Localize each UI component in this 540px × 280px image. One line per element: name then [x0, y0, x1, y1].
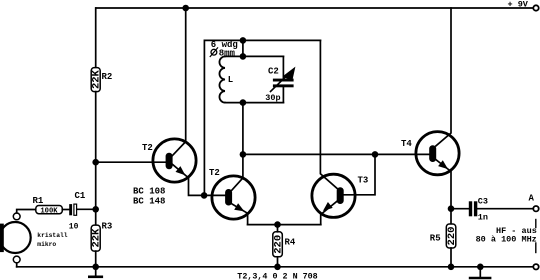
resistor R4: [273, 232, 283, 257]
svg-text:L: L: [228, 75, 233, 85]
capacitor C2 trimmer arrow: [271, 76, 288, 92]
wire R4 top stub: [277, 225, 279, 232]
svg-text:R1: R1: [33, 196, 44, 206]
node junction tank bottom: [240, 99, 247, 106]
svg-text:220: 220: [272, 235, 284, 254]
transistor T2 first: [153, 8, 204, 195]
wire C1 to junction: [77, 208, 96, 210]
svg-text:100K: 100K: [40, 207, 58, 215]
label coil diameter 8mm: [210, 47, 218, 57]
wire R5 bottom stub: [450, 248, 452, 267]
wire R5 top stub: [450, 209, 452, 224]
svg-text:T3: T3: [358, 175, 369, 185]
svg-text:T2,3,4 0 2 N 708: T2,3,4 0 2 N 708: [237, 272, 317, 280]
wire dashed output port upper: [535, 220, 537, 228]
wire tank right edge lower: [282, 87, 284, 102]
svg-text:T4: T4: [401, 139, 412, 149]
wire top supply rail: [96, 7, 533, 9]
svg-text:C1: C1: [75, 191, 86, 201]
svg-text:R4: R4: [285, 238, 296, 248]
svg-text:+ 9V: + 9V: [508, 0, 529, 9]
svg-text:1n: 1n: [478, 212, 488, 222]
svg-text:10: 10: [69, 222, 79, 231]
wire feedback box left edge: [204, 40, 320, 195]
resistor R2: [91, 68, 100, 92]
microphone body: [0, 222, 31, 253]
wire R3 bottom to ground rail: [95, 251, 97, 267]
node junction tank tap on box top: [240, 37, 247, 44]
resistor R3: [91, 225, 100, 251]
wire R4 bottom stub: [277, 257, 279, 267]
node ground rail terminal right: [533, 264, 538, 269]
resistor R5: [446, 224, 456, 248]
node mic bottom terminal: [13, 256, 20, 263]
node junction T3 base tap: [372, 151, 379, 158]
ground symbol left: [95, 267, 97, 277]
svg-text:30p: 30p: [265, 93, 280, 103]
svg-text:C2: C2: [268, 66, 279, 76]
wire left drop from rail to R2: [95, 8, 97, 68]
wire dashed output port lower: [535, 243, 537, 253]
microphone element bar: [0, 224, 4, 253]
capacitor C3 plate right: [474, 201, 477, 216]
node junction T2b base: [201, 192, 208, 199]
wire tank bottom edge: [225, 102, 283, 104]
node junction R5/rail: [448, 264, 455, 271]
svg-text:80 à 100 MHz: 80 à 100 MHz: [476, 235, 537, 245]
svg-text:BC 108: BC 108: [133, 187, 165, 197]
svg-text:mikro: mikro: [37, 241, 56, 248]
svg-text:22K: 22K: [91, 228, 103, 248]
svg-text:220: 220: [446, 227, 458, 246]
wire R1 to C1: [62, 209, 69, 211]
wire tank top edge: [225, 55, 283, 57]
inductor L coil: [219, 56, 225, 102]
node junction R4 top: [274, 221, 281, 228]
svg-text:C3: C3: [478, 196, 488, 206]
svg-text:T2: T2: [142, 143, 153, 153]
wire emitter coupling T2b to T3: [248, 224, 321, 226]
svg-text:A: A: [529, 193, 535, 203]
node +9V terminal: [533, 5, 538, 10]
svg-text:R5: R5: [430, 233, 441, 243]
wire R2 bottom to R3 top: [95, 92, 97, 226]
transistor T3: [312, 40, 375, 224]
svg-text:R2: R2: [102, 72, 113, 82]
transistor T2 second: [207, 158, 255, 225]
node junction ground right: [477, 264, 484, 271]
node junction rail/T2a collector: [182, 5, 189, 12]
wire tank feed lower: [242, 103, 244, 155]
wire mic top to R1: [17, 210, 36, 213]
wire junction to C3: [451, 208, 469, 210]
node junction R3/rail: [92, 264, 99, 271]
svg-text:8mm: 8mm: [219, 49, 236, 59]
wire tank right edge upper: [282, 56, 284, 78]
wire C3 to terminal A: [477, 208, 533, 210]
ground symbol right: [479, 267, 481, 278]
capacitor C1 plate left: [69, 204, 72, 215]
svg-text:T2: T2: [209, 168, 220, 178]
wire collector bus to T4 base: [243, 153, 429, 155]
svg-text:R3: R3: [102, 222, 113, 232]
wire base of T2a from divider: [96, 161, 166, 163]
wire mic bottom to ground rail: [16, 263, 18, 267]
wire bottom ground rail: [17, 266, 533, 268]
capacitor C2 plate upper: [273, 79, 294, 82]
capacitor C3 plate left: [469, 201, 472, 216]
node junction C1/divider: [92, 206, 99, 213]
capacitor C2 plate lower: [273, 84, 294, 87]
node junction R4/rail: [274, 264, 281, 271]
node junction emitter/C3/R5: [448, 205, 455, 212]
node mic top terminal: [13, 213, 20, 220]
svg-text:kristall: kristall: [37, 232, 67, 239]
node terminal A: [533, 206, 538, 211]
node junction R2/base: [92, 159, 99, 166]
svg-text:22K: 22K: [91, 69, 103, 89]
transistor T4: [416, 8, 459, 209]
capacitor C1 plate right: [74, 204, 77, 215]
wire tank feed upper: [242, 40, 244, 56]
svg-text:BC 148: BC 148: [133, 197, 165, 207]
resistor R1: [36, 206, 63, 214]
node junction tank/collector/bases: [240, 151, 247, 158]
node junction tank top: [240, 53, 247, 60]
